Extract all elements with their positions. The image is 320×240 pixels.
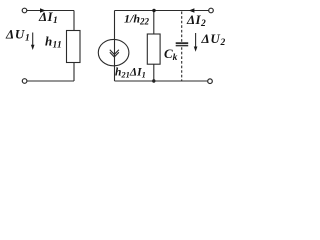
svg-text:Ck: Ck [164, 46, 178, 63]
wire dashed capacitor Ck bottom [181, 47, 183, 81]
resistor h11 [67, 31, 81, 63]
wire lead down to h11 [73, 11, 75, 31]
wire output bottom [115, 80, 208, 82]
svg-text:ΔU1: ΔU1 [5, 27, 30, 44]
svg-text:ΔI2: ΔI2 [186, 12, 206, 29]
terminal input top [22, 8, 27, 13]
wire input top [27, 10, 74, 12]
terminal output top [209, 8, 214, 13]
svg-text:1/h22: 1/h22 [124, 12, 150, 27]
capacitor Ck top plate [176, 42, 189, 44]
arrow of voltage dU2 [194, 33, 198, 52]
svg-text:ΔI1: ΔI1 [38, 9, 58, 26]
svg-text:h21ΔI1: h21ΔI1 [115, 67, 146, 80]
svg-text:ΔU2: ΔU2 [201, 31, 226, 48]
arrow of voltage dU1 [31, 33, 35, 51]
resistor 1/h22 [147, 34, 160, 64]
current source h21*dI1 circle [98, 39, 129, 65]
capacitor Ck bottom plate [176, 45, 189, 47]
junction dot top of 1/h22 [152, 9, 155, 12]
wire lead from 1/h22 bottom [153, 64, 155, 81]
terminal input bottom [22, 79, 27, 84]
wire lead from h11 bottom [73, 63, 75, 82]
wire input bottom [27, 80, 74, 82]
current source arrow chevrons [110, 50, 119, 55]
arrow of current dI2 [189, 8, 195, 13]
wire dashed capacitor Ck top [181, 12, 183, 43]
wire lead down to 1/h22 [153, 11, 155, 35]
junction dot bottom of 1/h22 [152, 79, 155, 82]
wire current-source branch [114, 11, 116, 82]
svg-text:h11: h11 [45, 34, 62, 51]
wire output top [115, 10, 209, 12]
terminal output bottom [208, 79, 213, 84]
arrow of current dI1 [40, 8, 46, 13]
